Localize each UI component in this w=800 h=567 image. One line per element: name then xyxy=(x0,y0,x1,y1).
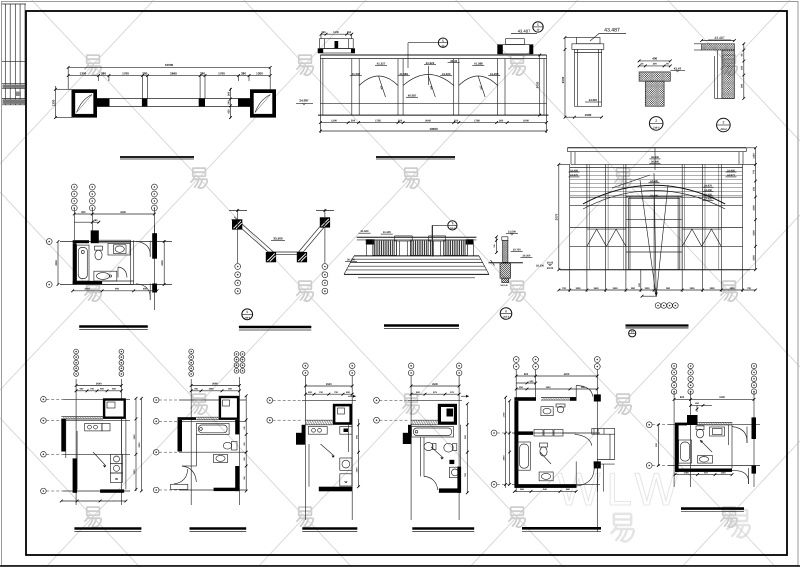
grid bubbles xyxy=(189,349,194,354)
dimension line xyxy=(564,38,566,118)
dimension line xyxy=(163,240,165,284)
svg-text:24.087: 24.087 xyxy=(589,98,598,102)
svg-text:1500: 1500 xyxy=(752,205,755,211)
svg-text:J10-2: J10-2 xyxy=(720,128,727,131)
stair arrow xyxy=(93,452,106,466)
svg-text:1050: 1050 xyxy=(84,288,90,291)
arches xyxy=(359,76,398,86)
toilet xyxy=(232,442,238,451)
bubble stacks xyxy=(235,264,241,270)
dimension line xyxy=(230,88,232,119)
dimension line xyxy=(558,164,560,269)
partition xyxy=(420,437,422,477)
title line xyxy=(681,507,744,510)
svg-text:420: 420 xyxy=(227,109,230,114)
svg-text:31.300: 31.300 xyxy=(383,231,391,234)
doors right xyxy=(136,241,150,257)
block6: balustrade elevation xyxy=(344,221,489,329)
svg-text:250: 250 xyxy=(347,31,352,34)
svg-text:900: 900 xyxy=(115,288,120,291)
svg-text:900: 900 xyxy=(81,211,86,214)
sink xyxy=(214,454,228,462)
shaft room xyxy=(103,398,126,419)
toilet xyxy=(696,426,704,430)
svg-text:10000: 10000 xyxy=(165,63,174,67)
title line xyxy=(190,527,247,530)
svg-text:1000: 1000 xyxy=(644,287,650,290)
dimension line xyxy=(559,289,756,291)
grid bubbles xyxy=(71,184,77,190)
dimension line xyxy=(574,116,601,118)
dimension line xyxy=(305,393,352,395)
bathtub xyxy=(77,245,89,281)
svg-text:1000: 1000 xyxy=(709,287,715,290)
top wall window xyxy=(61,415,103,417)
svg-text:1000: 1000 xyxy=(752,230,755,236)
svg-text:43.487: 43.487 xyxy=(714,36,724,40)
counter xyxy=(308,427,327,435)
dimension line xyxy=(55,86,57,118)
svg-text:400: 400 xyxy=(652,57,657,61)
shaft room xyxy=(438,404,457,425)
svg-text:1750: 1750 xyxy=(502,412,505,418)
dimension line xyxy=(509,401,511,485)
svg-text:1300: 1300 xyxy=(80,71,87,75)
block3: top-right details xyxy=(561,28,782,132)
svg-text:250: 250 xyxy=(454,119,459,122)
slope leaders xyxy=(379,76,386,97)
svg-text:J10-2: J10-2 xyxy=(244,316,251,319)
svg-text:41.47: 41.47 xyxy=(674,67,682,71)
detail circle xyxy=(649,117,663,131)
svg-text:J10-2: J10-2 xyxy=(450,227,456,230)
svg-text:1000: 1000 xyxy=(729,287,735,290)
svg-text:380: 380 xyxy=(241,71,246,75)
svg-text:100 140: 100 140 xyxy=(500,284,508,287)
svg-text:3300: 3300 xyxy=(120,211,126,214)
walls xyxy=(178,417,197,420)
svg-text:43.43: 43.43 xyxy=(450,59,457,63)
svg-text:1000: 1000 xyxy=(689,287,695,290)
coursing lines xyxy=(570,171,743,173)
left grid bubbles xyxy=(646,422,652,428)
svg-text:31.500: 31.500 xyxy=(361,230,369,233)
svg-text:1755: 1755 xyxy=(375,119,381,122)
bathtub xyxy=(412,427,454,438)
svg-text:1700: 1700 xyxy=(684,471,690,474)
svg-text:1500: 1500 xyxy=(546,386,552,389)
svg-text:1300: 1300 xyxy=(333,31,339,34)
dimension line xyxy=(321,33,352,35)
dimension line xyxy=(514,490,576,492)
svg-text:1780: 1780 xyxy=(474,119,480,122)
sink counter xyxy=(108,243,130,255)
title circle xyxy=(500,308,512,320)
leader circle xyxy=(438,38,447,47)
leader circle xyxy=(448,221,457,230)
dimension line xyxy=(57,242,59,285)
block2: arch elevation xyxy=(296,22,549,159)
left grid bubbles xyxy=(153,397,159,403)
ground line xyxy=(560,269,750,271)
svg-text:2500: 2500 xyxy=(432,383,438,386)
svg-text:150: 150 xyxy=(752,186,755,191)
svg-text:1700: 1700 xyxy=(122,71,129,75)
facade horizontals xyxy=(570,167,743,169)
svg-text:2500: 2500 xyxy=(326,383,332,386)
block4: facade elevation xyxy=(547,146,757,337)
sink counter xyxy=(710,427,725,436)
bottom counter xyxy=(539,472,553,481)
svg-text:360: 360 xyxy=(227,91,230,96)
walls xyxy=(73,240,89,243)
svg-text:9: 9 xyxy=(246,310,248,314)
svg-text:3: 3 xyxy=(722,121,724,125)
dimension line xyxy=(358,419,360,487)
title line xyxy=(302,527,357,530)
column elevation xyxy=(577,38,600,44)
svg-text:650: 650 xyxy=(143,288,148,291)
vent arrow xyxy=(348,395,356,397)
washer xyxy=(449,467,460,478)
svg-text:800: 800 xyxy=(524,373,529,376)
svg-text:380: 380 xyxy=(142,71,147,75)
title line xyxy=(79,325,148,328)
dimension line xyxy=(68,75,270,77)
dimension line xyxy=(639,65,670,67)
svg-text:2900: 2900 xyxy=(138,442,141,448)
left bubbles xyxy=(46,239,52,245)
dimension line xyxy=(140,398,142,491)
svg-text:40.087: 40.087 xyxy=(408,94,417,98)
svg-text:2200: 2200 xyxy=(161,260,164,266)
dimension line xyxy=(74,221,99,223)
svg-text:41.522: 41.522 xyxy=(426,61,435,65)
V arms xyxy=(232,220,272,255)
svg-text:2200: 2200 xyxy=(55,260,58,266)
diagonal xyxy=(700,440,712,452)
title line xyxy=(384,324,459,327)
grid bubbles xyxy=(408,363,414,369)
walls bottom/right xyxy=(439,488,461,492)
svg-text:250: 250 xyxy=(321,31,326,34)
grid lines xyxy=(63,398,130,400)
svg-text:3100: 3100 xyxy=(719,396,725,399)
stair arrow xyxy=(321,444,335,456)
svg-text:29.00: 29.00 xyxy=(547,267,554,270)
svg-text:380: 380 xyxy=(101,71,106,75)
converging leader lines xyxy=(640,180,656,297)
svg-text:360: 360 xyxy=(499,119,504,122)
svg-text:41.023: 41.023 xyxy=(442,72,451,76)
dimension line xyxy=(516,388,597,390)
arch band xyxy=(583,185,725,204)
svg-text:1100: 1100 xyxy=(752,153,755,159)
svg-text:1000: 1000 xyxy=(575,287,581,290)
svg-text:35.500: 35.500 xyxy=(273,237,283,241)
title line xyxy=(74,527,141,530)
svg-text:8: 8 xyxy=(505,309,507,313)
title line xyxy=(239,326,311,329)
left dim xyxy=(496,237,498,253)
svg-text:1300: 1300 xyxy=(256,71,263,75)
svg-text:2040: 2040 xyxy=(425,119,431,122)
dimension line xyxy=(516,382,535,384)
grid bubbles xyxy=(303,363,309,369)
column right xyxy=(250,89,276,117)
svg-text:300: 300 xyxy=(653,63,658,66)
title line xyxy=(522,527,601,530)
dimension line xyxy=(191,385,239,387)
svg-text:30.700: 30.700 xyxy=(513,248,521,251)
dimension line xyxy=(320,122,546,124)
title line xyxy=(120,156,194,158)
svg-text:43.487: 43.487 xyxy=(518,29,531,34)
title line xyxy=(376,156,455,158)
dimension line xyxy=(466,404,468,493)
detail circle xyxy=(717,118,731,132)
svg-text:3070: 3070 xyxy=(555,213,559,220)
ground line xyxy=(489,262,523,264)
corridor walls xyxy=(592,429,615,435)
pilasters xyxy=(351,59,353,116)
svg-text:150: 150 xyxy=(741,65,744,70)
mid wall + fixtures xyxy=(514,431,533,435)
elevation top band xyxy=(320,54,546,56)
title line xyxy=(412,527,474,530)
dimension line xyxy=(135,398,137,491)
left grid bubbles xyxy=(267,397,273,403)
grid bubbles row xyxy=(655,303,661,309)
svg-text:2660: 2660 xyxy=(212,382,218,385)
svg-text:2640: 2640 xyxy=(96,382,102,385)
toilet xyxy=(444,443,453,452)
grid bubbles xyxy=(513,357,519,363)
svg-text:380: 380 xyxy=(200,71,205,75)
block1: top-left wall plan xyxy=(51,63,276,159)
svg-text:240: 240 xyxy=(227,100,230,105)
title line xyxy=(626,324,689,326)
dimension line xyxy=(539,55,541,115)
grid bubbles xyxy=(74,349,79,354)
block8: mid-left bathroom plan xyxy=(46,184,172,329)
threshold door bottom-left xyxy=(171,484,188,489)
dimension line xyxy=(743,44,745,99)
washbasin xyxy=(698,456,713,464)
svg-text:W: W xyxy=(344,480,347,484)
svg-text:5: 5 xyxy=(442,39,444,43)
X panels xyxy=(587,229,626,246)
svg-text:2: 2 xyxy=(655,119,657,123)
svg-text:500: 500 xyxy=(351,119,356,122)
bathtub xyxy=(196,423,229,434)
column left xyxy=(72,89,98,117)
svg-text:3200: 3200 xyxy=(564,373,570,376)
dimension line xyxy=(305,385,352,387)
right piers xyxy=(752,417,757,439)
bottom wall xyxy=(514,484,576,488)
svg-text:41.332: 41.332 xyxy=(352,72,361,76)
svg-text:30.300: 30.300 xyxy=(522,255,530,258)
base steps xyxy=(354,255,479,257)
svg-text:3000: 3000 xyxy=(561,76,565,83)
dimension line xyxy=(516,375,597,377)
svg-text:1500: 1500 xyxy=(612,287,618,290)
dimension line xyxy=(505,397,507,488)
svg-text:31.500: 31.500 xyxy=(508,231,516,234)
dimension line xyxy=(68,66,270,68)
dimension line xyxy=(702,40,735,42)
top rail xyxy=(357,236,477,238)
doors right xyxy=(732,427,747,444)
bathtub xyxy=(679,440,692,463)
svg-text:2800: 2800 xyxy=(502,455,505,461)
svg-text:1700: 1700 xyxy=(218,71,225,75)
svg-text:800: 800 xyxy=(680,396,685,399)
toilet xyxy=(540,443,548,447)
svg-text:1500: 1500 xyxy=(752,255,755,261)
drain xyxy=(449,460,454,464)
block5: V detail xyxy=(229,209,334,330)
balusters xyxy=(373,240,397,255)
svg-text:41.388: 41.388 xyxy=(474,62,483,66)
hatched column blocks xyxy=(232,219,242,229)
pier plan right xyxy=(506,39,525,45)
shaft room xyxy=(219,396,240,420)
cornice xyxy=(568,147,747,149)
appliances xyxy=(110,454,122,463)
dimension line xyxy=(74,213,154,215)
left wall xyxy=(514,401,518,434)
pier verticals xyxy=(366,241,368,256)
shaft room xyxy=(333,404,352,425)
facade verticals xyxy=(569,164,571,269)
walls top xyxy=(514,397,536,401)
svg-text:J10-2: J10-2 xyxy=(653,126,660,129)
grid lines xyxy=(60,241,172,243)
wall band xyxy=(97,98,250,100)
partition + door xyxy=(195,434,197,466)
dimension line xyxy=(73,290,157,292)
svg-text:1000: 1000 xyxy=(133,469,136,475)
svg-text:41.327: 41.327 xyxy=(377,62,386,66)
svg-text:1600: 1600 xyxy=(593,287,599,290)
dimension line xyxy=(320,130,546,132)
dimension line xyxy=(691,404,712,406)
dimension line xyxy=(675,474,732,476)
svg-text:1300: 1300 xyxy=(331,119,337,122)
right piers xyxy=(152,233,157,259)
dimension line xyxy=(245,396,247,491)
dimension line xyxy=(411,393,459,395)
svg-text:W: W xyxy=(115,477,118,481)
bottom-right door xyxy=(576,461,594,486)
svg-text:1350: 1350 xyxy=(721,471,727,474)
left title strip xyxy=(2,4,26,105)
svg-text:250: 250 xyxy=(398,119,403,122)
svg-text:1000: 1000 xyxy=(523,119,529,122)
left grid bubbles xyxy=(41,397,47,403)
dimension line xyxy=(411,385,459,387)
walls xyxy=(411,419,438,421)
svg-text:390: 390 xyxy=(741,83,744,88)
left grid bubbles xyxy=(491,430,497,436)
svg-text:43.487: 43.487 xyxy=(604,28,620,34)
vent arrow xyxy=(461,395,469,397)
walls xyxy=(61,419,66,452)
svg-text:25.300: 25.300 xyxy=(536,265,544,268)
walls xyxy=(675,423,687,426)
dimension line xyxy=(657,425,659,466)
dimension line xyxy=(76,390,121,392)
dimension line xyxy=(755,148,757,270)
washbasin xyxy=(94,271,117,281)
end posts black caps xyxy=(366,239,375,244)
grid bubbles xyxy=(671,363,676,368)
svg-text:10000: 10000 xyxy=(429,127,438,131)
pier caps xyxy=(395,236,413,241)
svg-text:1300: 1300 xyxy=(51,99,55,106)
svg-text:1900: 1900 xyxy=(133,434,136,440)
detail circle 5 xyxy=(533,22,543,32)
svg-text:24.087: 24.087 xyxy=(299,99,309,103)
dimension line xyxy=(61,500,126,502)
appliances xyxy=(340,458,352,470)
diagonal xyxy=(431,447,444,458)
dimension line xyxy=(76,385,121,387)
top-right door xyxy=(576,386,593,397)
bathtub xyxy=(518,442,530,470)
basin xyxy=(424,443,433,451)
svg-text:5: 5 xyxy=(537,23,539,27)
svg-text:1000: 1000 xyxy=(355,467,358,473)
left grid bubbles xyxy=(374,397,380,403)
rail cap xyxy=(502,237,508,241)
rail line xyxy=(320,102,546,104)
block7: balustrade section xyxy=(481,231,545,320)
interior door arc xyxy=(118,267,127,278)
title symbol xyxy=(242,309,253,320)
counter with burners xyxy=(85,423,102,431)
extension lines xyxy=(141,76,143,99)
ground line xyxy=(318,114,549,116)
dimension line xyxy=(674,398,754,400)
svg-text:1900: 1900 xyxy=(209,388,215,391)
leader verticals xyxy=(237,209,239,263)
svg-text:775: 775 xyxy=(752,169,755,174)
door arc xyxy=(424,477,438,491)
room1 fixtures xyxy=(541,407,553,416)
svg-text:2840: 2840 xyxy=(170,71,177,75)
toilet xyxy=(95,246,103,250)
svg-text:1500: 1500 xyxy=(585,113,592,117)
diagonal xyxy=(540,452,551,464)
dimension line xyxy=(191,390,239,392)
svg-text:480: 480 xyxy=(94,219,99,222)
dimension line xyxy=(639,60,670,62)
svg-text:3000: 3000 xyxy=(536,81,540,88)
svg-text:41.383: 41.383 xyxy=(399,72,408,76)
bottom row plans xyxy=(41,349,143,531)
door xyxy=(626,196,682,269)
svg-text:41.209: 41.209 xyxy=(490,72,499,76)
svg-text:30.300: 30.300 xyxy=(347,258,355,261)
title circle xyxy=(629,330,636,337)
walls xyxy=(305,419,333,421)
svg-text:J10-2: J10-2 xyxy=(503,316,510,319)
